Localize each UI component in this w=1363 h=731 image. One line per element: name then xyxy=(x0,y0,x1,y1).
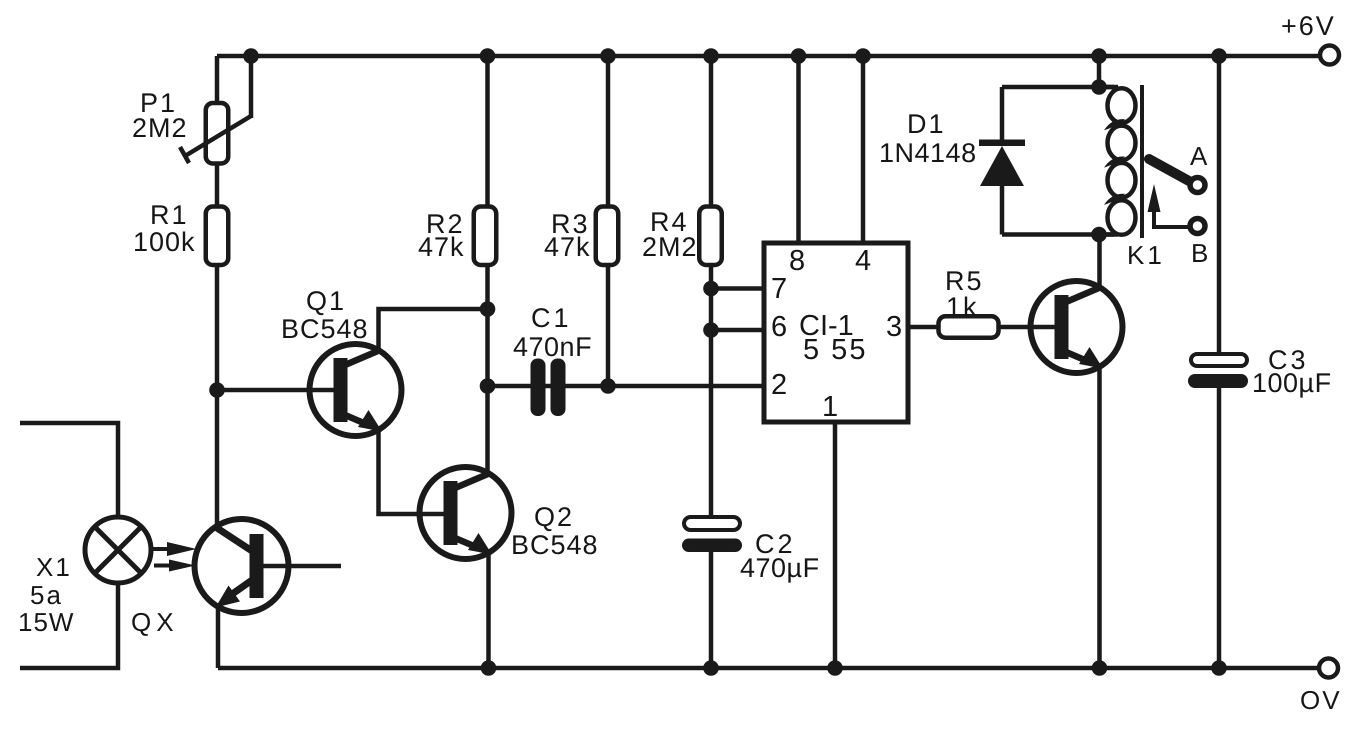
junction node R1/Q1 base xyxy=(209,382,225,398)
svg-text:470µF: 470µF xyxy=(740,553,820,583)
wire lamp top xyxy=(20,423,118,517)
svg-text:D1: D1 xyxy=(907,109,946,139)
wire P1 wiper to rail xyxy=(249,56,254,118)
wire R2 top lead xyxy=(485,56,490,205)
transistor Q2 xyxy=(420,467,512,559)
resistor R2 xyxy=(474,207,497,266)
terminal +6V xyxy=(1320,46,1339,65)
resistor R1 xyxy=(206,207,229,266)
svg-text:47k: 47k xyxy=(418,232,465,262)
junction node coil top xyxy=(1091,79,1107,95)
wire R1 to QX collector xyxy=(215,267,220,527)
junction node coil bottom xyxy=(1091,227,1107,243)
pin 1 wire xyxy=(833,422,838,668)
svg-text:QX: QX xyxy=(131,607,179,637)
svg-text:3: 3 xyxy=(886,311,902,343)
transistor Q1 xyxy=(310,344,402,436)
svg-text:5a: 5a xyxy=(30,580,63,610)
wire R4 top lead xyxy=(709,56,714,205)
junction node Q1 collector / R2 xyxy=(480,301,496,317)
node dot relay branch on rail xyxy=(1091,48,1107,64)
relay contact B xyxy=(1190,219,1205,234)
svg-text:Q2: Q2 xyxy=(534,502,574,532)
capacitor C3 top plate xyxy=(1191,354,1247,366)
wire C2 to 0V xyxy=(709,552,714,668)
relay K1 coil xyxy=(1099,87,1136,235)
wire top +6V rail xyxy=(217,54,1318,59)
wire pin7 xyxy=(711,286,766,291)
node dot R3 on rail xyxy=(600,48,616,64)
svg-text:4: 4 xyxy=(855,245,871,277)
svg-text:OV: OV xyxy=(1300,685,1342,715)
wire QX base stub xyxy=(263,564,341,569)
svg-text:100µF: 100µF xyxy=(1252,368,1332,398)
node dot pin4 on rail xyxy=(855,48,871,64)
node dot P1 wiper on rail xyxy=(243,48,259,64)
lamp X1 cross xyxy=(95,527,141,573)
P1 wiper arm xyxy=(185,116,251,156)
svg-text:BC548: BC548 xyxy=(281,314,369,344)
svg-text:X1: X1 xyxy=(36,552,72,582)
wire relay branch from rail xyxy=(1097,56,1102,87)
wire bottom 0V rail xyxy=(218,666,1318,671)
svg-text:Q1: Q1 xyxy=(306,286,346,316)
wire C3 bottom lead xyxy=(1217,388,1222,668)
capacitor C2 bottom plate xyxy=(682,539,742,553)
svg-text:5 55: 5 55 xyxy=(803,334,867,366)
resistor R4 xyxy=(699,207,722,266)
relay K1 lever xyxy=(1149,159,1189,181)
resistor R5 xyxy=(939,316,999,338)
pin 3 wire xyxy=(908,325,937,330)
wire pin2 xyxy=(608,384,766,389)
svg-text:7: 7 xyxy=(771,273,787,305)
svg-text:100k: 100k xyxy=(133,227,196,257)
wire Q1 emitter to Q2 base xyxy=(379,430,445,514)
junction node C1 left xyxy=(480,378,496,394)
wire C3 top lead xyxy=(1217,56,1222,354)
wire pin6 xyxy=(711,328,766,333)
node dot pin8 on rail xyxy=(791,48,807,64)
wire lamp bottom xyxy=(20,583,118,668)
terminal 0V xyxy=(1319,659,1338,678)
relay contact A xyxy=(1190,178,1205,193)
svg-text:R1: R1 xyxy=(150,200,189,230)
wire R5 to Q3 base xyxy=(1000,325,1055,330)
wire Q3 collector up xyxy=(1097,235,1102,289)
wire D1/coil top xyxy=(1002,85,1118,90)
svg-text:B: B xyxy=(1191,238,1208,268)
diode D1 triangle xyxy=(980,146,1024,186)
junction node C3 on rail xyxy=(1211,660,1227,676)
junction node pin7 xyxy=(703,281,719,297)
wire R3 bottom lead xyxy=(606,267,611,386)
phototransistor QX xyxy=(195,519,289,613)
svg-text:A: A xyxy=(1190,141,1208,171)
junction node C2 on rail xyxy=(703,660,719,676)
resistor R3 xyxy=(596,207,619,266)
relay B wire with arrow xyxy=(1154,208,1189,227)
wire D1 cathode lead xyxy=(1000,87,1005,141)
wire C1 node line xyxy=(488,384,609,389)
node dot C3 on rail xyxy=(1211,48,1227,64)
junction node C1 right xyxy=(600,378,616,394)
capacitor C1 xyxy=(531,359,566,417)
node dot R2 on rail xyxy=(480,48,496,64)
wire R2 bottom to Q2 collector xyxy=(485,267,490,474)
node dot R4 on rail xyxy=(703,48,719,64)
wire Q1 base xyxy=(217,388,334,393)
wire R3 top lead xyxy=(606,56,611,205)
wire R4 bottom to C2 xyxy=(709,267,714,517)
capacitor C2 top plate xyxy=(684,517,740,530)
svg-text:2: 2 xyxy=(771,369,787,401)
capacitor C3 bottom plate xyxy=(1188,374,1248,388)
diode D1 cathode bar xyxy=(979,140,1025,147)
svg-text:BC548: BC548 xyxy=(511,530,599,560)
wire P1 top lead xyxy=(215,56,220,102)
pin 8 wire xyxy=(796,56,801,243)
potentiometer P1 xyxy=(206,103,229,164)
svg-text:C1: C1 xyxy=(531,303,572,333)
wire Q2 emitter to 0V xyxy=(486,553,491,668)
wire Q1 collector up xyxy=(379,309,488,351)
svg-text:K1: K1 xyxy=(1127,240,1165,270)
relay K1 frame bar xyxy=(1140,85,1144,238)
svg-text:1k: 1k xyxy=(946,292,979,322)
light arrow upper xyxy=(151,547,172,551)
lamp X1 xyxy=(85,517,151,583)
P1 wiper end tick xyxy=(180,147,189,163)
wire D1 anode lead xyxy=(1000,186,1005,235)
wire P1 to R1 xyxy=(215,165,220,205)
svg-text:2M2: 2M2 xyxy=(132,113,188,143)
junction node pin1 on rail xyxy=(827,660,843,676)
svg-text:+6V: +6V xyxy=(1281,11,1336,41)
svg-text:470nF: 470nF xyxy=(513,332,592,362)
junction node Q3 emitter on rail xyxy=(1092,660,1108,676)
svg-text:2M2: 2M2 xyxy=(642,232,698,262)
svg-text:47k: 47k xyxy=(544,232,591,262)
svg-text:1N4148: 1N4148 xyxy=(879,138,977,168)
op-amp/IC CI-1 555 box xyxy=(764,243,908,422)
svg-text:8: 8 xyxy=(789,245,805,277)
pin 4 wire xyxy=(861,56,866,243)
junction node pin6 xyxy=(703,322,719,338)
wire D1/coil bottom xyxy=(1002,232,1118,237)
svg-text:6: 6 xyxy=(771,311,787,343)
junction node Q2 emitter on rail xyxy=(481,660,497,676)
transistor Q3 xyxy=(1031,281,1123,373)
wire Q3 emitter to 0V xyxy=(1097,367,1102,668)
svg-text:15W: 15W xyxy=(18,607,74,637)
wire QX emitter to 0V xyxy=(216,606,221,668)
svg-text:1: 1 xyxy=(822,391,838,423)
light arrow lower xyxy=(154,564,174,568)
